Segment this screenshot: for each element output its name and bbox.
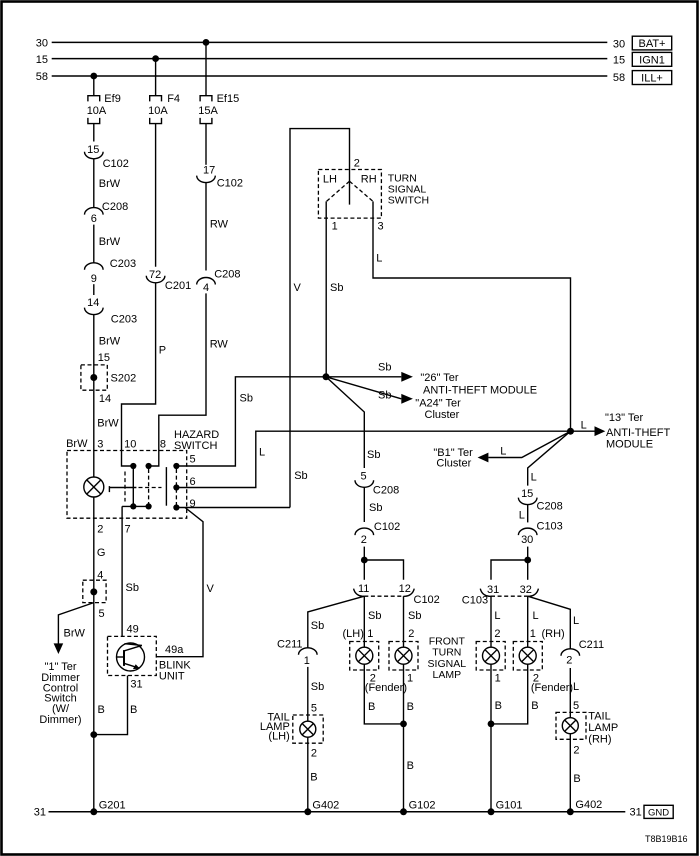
svg-text:B: B	[368, 701, 375, 713]
svg-text:Sb: Sb	[240, 393, 253, 405]
wire LH node to pin 11 drop	[363, 560, 365, 580]
front turn signal lamp LH (front)	[389, 642, 418, 671]
wire RH node to pin 31 drop	[491, 560, 528, 580]
svg-text:2: 2	[361, 534, 367, 546]
svg-text:Sb: Sb	[126, 582, 139, 594]
fuse Ef15 15A	[198, 42, 239, 123]
svg-text:V: V	[294, 282, 302, 294]
junction B-join left column	[90, 731, 97, 738]
svg-text:7: 7	[125, 523, 131, 535]
svg-text:L: L	[376, 252, 382, 264]
svg-text:31: 31	[630, 807, 642, 819]
junction A (Sb node)	[323, 373, 330, 380]
svg-text:RW: RW	[210, 218, 229, 230]
svg-text:(LH): (LH)	[268, 730, 289, 742]
svg-text:15: 15	[87, 144, 99, 156]
svg-text:L: L	[573, 681, 579, 693]
ground G201	[90, 799, 125, 815]
svg-text:B: B	[407, 701, 414, 713]
svg-text:5: 5	[360, 471, 366, 483]
blink unit transistor Q	[117, 643, 145, 671]
svg-text:1: 1	[530, 628, 536, 640]
connector C208 pin 4	[197, 268, 241, 294]
svg-text:MODULE: MODULE	[606, 438, 653, 450]
svg-text:SWITCH: SWITCH	[388, 195, 429, 207]
svg-text:1: 1	[367, 628, 373, 640]
svg-text:L: L	[494, 610, 500, 622]
svg-text:5: 5	[311, 703, 317, 715]
wire BrW C208 to C203	[94, 225, 121, 263]
ground G102	[400, 799, 436, 815]
wire L C103-31 to front turn signal lamp RH-2	[491, 596, 501, 647]
svg-text:30: 30	[36, 38, 48, 50]
svg-text:15A: 15A	[198, 105, 218, 117]
front turn signal lamp LH (fender)	[350, 642, 379, 671]
svg-text:IGN1: IGN1	[639, 54, 665, 66]
svg-text:Dimmer): Dimmer)	[39, 714, 81, 726]
arrow "26" Ter ANTI-THEFT MODULE	[326, 362, 537, 397]
dimmer splice box	[83, 580, 106, 620]
svg-text:Ef15: Ef15	[217, 93, 240, 105]
svg-text:S202: S202	[111, 373, 137, 385]
svg-text:(RH): (RH)	[588, 734, 611, 746]
svg-text:(Fender): (Fender)	[531, 682, 573, 694]
svg-text:31: 31	[130, 678, 142, 690]
svg-text:B: B	[495, 700, 502, 712]
svg-text:B: B	[573, 773, 580, 785]
label front turn signal lamp	[428, 636, 467, 681]
svg-text:RW: RW	[210, 339, 229, 351]
node RH distribution junction	[524, 557, 531, 564]
svg-text:BrW: BrW	[97, 418, 119, 430]
blink unit labels	[130, 644, 191, 690]
svg-text:9: 9	[91, 273, 97, 285]
junction on bus 15	[152, 55, 159, 62]
wire B tail lamp RH to G402	[570, 734, 580, 812]
svg-text:G101: G101	[496, 799, 523, 811]
arrow "A24" Ter Cluster	[326, 377, 461, 421]
connector C103 pin 31	[462, 584, 499, 607]
wire V turn signal pin 2 riser	[290, 129, 350, 508]
svg-text:ANTI-THEFT: ANTI-THEFT	[606, 427, 670, 439]
wire L C103-32 to front turn signal lamp RH-1	[528, 596, 565, 647]
svg-text:G201: G201	[99, 799, 126, 811]
svg-text:2: 2	[408, 628, 414, 640]
svg-text:49a: 49a	[165, 644, 184, 656]
svg-text:10A: 10A	[87, 105, 107, 117]
svg-text:L: L	[581, 419, 587, 431]
svg-text:49: 49	[127, 624, 139, 636]
connector C103 pin 30	[518, 521, 562, 547]
wire F4 to connector C201	[155, 124, 157, 267]
connector C201 pin 72	[146, 269, 191, 292]
svg-text:C201: C201	[165, 280, 191, 292]
wire B lamp LH-2(fender) to join	[364, 664, 407, 724]
junction on bus 58	[90, 73, 97, 80]
svg-text:30: 30	[613, 39, 625, 51]
svg-text:C103: C103	[537, 521, 563, 533]
wire Sb C102-11 to front turn signal lamp LH-1	[343, 596, 382, 647]
bus 58 ILL+	[36, 71, 672, 85]
bus 30 BAT+	[36, 36, 672, 50]
wire B lamp RH-1 to G101	[491, 664, 502, 812]
svg-text:Sb: Sb	[311, 681, 324, 693]
svg-text:Sb: Sb	[294, 470, 307, 482]
wire B lamp LH-1 to G102	[404, 664, 414, 812]
wire Ef15 to connector C102	[205, 124, 207, 165]
svg-text:GND: GND	[648, 807, 669, 818]
svg-text:Sb: Sb	[378, 389, 391, 401]
wire Sb C102-11 branch to C211 LH	[308, 596, 365, 648]
svg-text:1: 1	[304, 655, 310, 667]
wire BrW C203 to S202 to hazard switch pin 3	[94, 315, 121, 477]
connector C203 pin 9	[85, 258, 137, 285]
svg-text:5: 5	[190, 454, 196, 466]
ground G101	[488, 799, 523, 815]
turn signal switch contacts	[326, 181, 373, 201]
wire Sb hazard pin 5 to junction A	[176, 377, 326, 466]
svg-text:T8B19B16: T8B19B16	[645, 834, 688, 844]
wire L C211 to tail lamp RH	[570, 668, 579, 718]
wire Sb C211 to tail lamp LH	[308, 667, 324, 721]
connector C103 pin 32	[491, 584, 538, 596]
svg-text:ILL+: ILL+	[641, 73, 663, 85]
svg-text:Ef9: Ef9	[104, 93, 121, 105]
svg-text:C208: C208	[373, 484, 399, 496]
svg-text:12: 12	[399, 583, 411, 595]
front turn signal lamp RH (front)	[476, 642, 505, 671]
junction B-join RH	[488, 721, 495, 728]
hazard contact pole C (pins 5,6,9)	[173, 463, 179, 511]
hazard contact pole A (pins 10-7)	[125, 463, 136, 510]
svg-text:L: L	[531, 472, 537, 484]
connector C208 pin 5	[355, 471, 399, 497]
svg-text:1: 1	[332, 221, 338, 233]
svg-text:3: 3	[378, 221, 384, 233]
svg-text:1: 1	[407, 673, 413, 685]
svg-text:BrW: BrW	[99, 178, 121, 190]
svg-text:15: 15	[521, 488, 533, 500]
svg-text:G402: G402	[312, 799, 339, 811]
wire P C201 to hazard pin 10	[122, 283, 167, 466]
connector C208 pin 15	[518, 488, 562, 513]
svg-text:B: B	[531, 700, 538, 712]
svg-text:14: 14	[87, 297, 99, 309]
connector C208 pin 6	[85, 201, 129, 225]
arrow "B1" Ter Cluster	[433, 431, 570, 469]
svg-text:B: B	[407, 760, 414, 772]
wire B left column to G201	[94, 592, 105, 812]
svg-text:30: 30	[521, 534, 533, 546]
svg-text:C208: C208	[102, 201, 128, 213]
svg-text:15: 15	[36, 54, 48, 66]
wire hazard pin 9 to V riser	[176, 507, 290, 509]
svg-text:10A: 10A	[148, 105, 168, 117]
svg-text:G: G	[97, 547, 106, 559]
hazard switch box	[66, 429, 219, 518]
svg-text:C102: C102	[414, 594, 440, 606]
svg-text:TURN: TURN	[432, 647, 461, 659]
wire C203-9 to C203-14	[93, 284, 95, 295]
svg-text:10: 10	[124, 439, 136, 451]
svg-text:15: 15	[98, 352, 110, 364]
fuse F4 10A	[148, 59, 180, 124]
svg-text:Cluster: Cluster	[436, 458, 471, 470]
wire B tail lamp LH to G402	[308, 737, 318, 812]
wire BrW branch to dimmer control switch	[54, 603, 94, 654]
junction on bus 30	[203, 39, 210, 46]
wire L junction B to C208	[528, 431, 571, 485]
wire RW C208 to hazard pin 8	[149, 293, 229, 466]
svg-text:BrW: BrW	[66, 438, 88, 450]
svg-text:"13" Ter: "13" Ter	[605, 412, 644, 424]
wire RW C102 to C208	[206, 183, 229, 271]
wire Sb C102-12 to front turn signal lamp LH-2	[404, 596, 422, 647]
svg-text:11: 11	[358, 583, 369, 595]
connector C102 pin 15	[85, 144, 129, 170]
svg-text:G402: G402	[575, 799, 602, 811]
svg-text:3: 3	[97, 439, 103, 451]
hazard contact pole B (pin 8)	[146, 463, 152, 510]
blink unit box	[108, 636, 157, 675]
svg-text:C208: C208	[214, 268, 240, 280]
svg-text:Sb: Sb	[378, 362, 391, 374]
svg-text:BrW: BrW	[99, 236, 121, 248]
wire B lamp RH-2(fender) to join	[491, 664, 573, 724]
wire BrW C102 to C208	[94, 159, 121, 208]
svg-text:C102: C102	[217, 178, 243, 190]
connector C102 pin 11	[354, 583, 370, 596]
svg-text:72: 72	[149, 269, 161, 281]
connector C102 pin 12	[364, 583, 439, 606]
wire V branch to blink unit 49a	[156, 508, 214, 657]
wire L hazard pin 6 to junction B	[176, 431, 570, 487]
svg-text:(LH): (LH)	[343, 628, 364, 640]
ground bus 31	[34, 807, 642, 819]
wire LH node to pin 12 drop	[364, 560, 403, 580]
svg-text:31: 31	[487, 584, 499, 596]
wire Sb hazard pin 7 to blink unit 49	[122, 506, 139, 636]
wire B blink unit 31 to B-join	[94, 676, 138, 735]
svg-text:C208: C208	[537, 501, 563, 513]
svg-text:P: P	[159, 345, 166, 357]
svg-text:BrW: BrW	[99, 336, 121, 348]
svg-text:V: V	[207, 583, 215, 595]
wire L C103-32 branch to C211 RH	[528, 596, 579, 649]
wire Sb C102 to LH distribution node	[363, 547, 365, 560]
turn signal switch label	[388, 173, 429, 207]
svg-text:4: 4	[97, 569, 103, 581]
connector C102 pin 2	[355, 521, 400, 546]
wire G hazard pin 2 down to dimmer splice	[94, 497, 106, 592]
tail lamp RH	[556, 710, 618, 745]
svg-text:TAIL: TAIL	[588, 710, 610, 722]
svg-text:(RH): (RH)	[542, 628, 565, 640]
svg-text:G102: G102	[409, 799, 436, 811]
svg-text:Sb: Sb	[368, 610, 381, 622]
tail lamp LH	[260, 711, 323, 743]
wire L turn signal pin 3 to junction B	[373, 201, 571, 431]
connector C102 pin 17	[197, 164, 243, 189]
ground G402 (RH)	[567, 799, 603, 815]
svg-text:C211: C211	[579, 639, 604, 651]
svg-text:B: B	[310, 772, 317, 784]
svg-text:Sb: Sb	[311, 620, 324, 632]
svg-text:2: 2	[354, 158, 360, 170]
svg-text:(Fender): (Fender)	[365, 682, 407, 694]
wire RH node to pin 32 drop	[527, 560, 529, 580]
svg-text:F4: F4	[167, 93, 180, 105]
wire Sb turn signal pin 1 to junction	[326, 201, 343, 376]
bus 15 IGN1	[36, 52, 672, 66]
svg-text:BrW: BrW	[64, 628, 86, 640]
turn signal switch box	[318, 158, 381, 218]
svg-text:Sb: Sb	[369, 502, 382, 514]
svg-text:6: 6	[190, 476, 196, 488]
svg-text:14: 14	[99, 393, 111, 405]
svg-text:2: 2	[494, 628, 500, 640]
wire BrW fuse Ef9 to connector C102	[93, 124, 95, 142]
hazard lamp linkage	[109, 486, 161, 492]
junction B (L node)	[567, 428, 574, 435]
svg-text:L: L	[573, 615, 579, 627]
front turn signal lamp RH (fender)	[513, 642, 542, 671]
svg-text:58: 58	[613, 72, 625, 84]
svg-text:Sb: Sb	[367, 449, 380, 461]
svg-text:2: 2	[311, 748, 317, 760]
svg-text:"26" Ter: "26" Ter	[420, 372, 459, 384]
svg-text:RH: RH	[361, 174, 377, 186]
svg-text:9: 9	[190, 498, 196, 510]
svg-text:32: 32	[520, 584, 532, 596]
svg-text:15: 15	[613, 54, 625, 66]
svg-text:5: 5	[573, 700, 579, 712]
wire hazard pins 7 bottom bar	[122, 505, 149, 507]
arrow "13" Ter ANTI-THEFT MODULE	[571, 412, 671, 450]
svg-text:B: B	[98, 704, 105, 716]
svg-text:2: 2	[566, 654, 572, 666]
svg-text:L: L	[500, 446, 506, 458]
svg-text:31: 31	[34, 807, 46, 819]
svg-text:LH: LH	[323, 174, 337, 186]
connector C203 pin 14	[85, 297, 138, 325]
svg-text:5: 5	[99, 608, 105, 620]
svg-text:1: 1	[495, 673, 501, 685]
svg-text:ANTI-THEFT MODULE: ANTI-THEFT MODULE	[423, 384, 537, 396]
svg-text:17: 17	[203, 164, 215, 176]
svg-text:8: 8	[160, 439, 166, 451]
svg-text:C203: C203	[111, 313, 137, 325]
wire L C208 to C103	[519, 505, 528, 523]
svg-text:LAMP: LAMP	[433, 669, 462, 681]
splice S202	[81, 365, 136, 390]
svg-text:6: 6	[91, 213, 97, 225]
svg-text:UNIT: UNIT	[159, 671, 185, 683]
svg-text:58: 58	[36, 71, 48, 83]
fuse Ef9 10A	[87, 76, 121, 124]
svg-text:2: 2	[573, 745, 579, 757]
svg-text:Sb: Sb	[330, 282, 343, 294]
hazard actuator bar	[165, 467, 167, 506]
svg-text:C103: C103	[462, 595, 488, 607]
junction B-join LH	[400, 721, 407, 728]
svg-text:C203: C203	[110, 258, 136, 270]
svg-text:"A24" Ter: "A24" Ter	[415, 398, 461, 410]
connector C211 pin 1	[277, 639, 317, 667]
svg-text:L: L	[259, 447, 265, 459]
wire Sb junction A to C208	[326, 377, 380, 468]
hazard illumination lamp	[84, 477, 104, 497]
svg-text:C102: C102	[374, 521, 400, 533]
wire Sb C208 to C102	[364, 487, 382, 522]
svg-text:4: 4	[203, 282, 209, 294]
wire L C103 to RH distribution node	[527, 547, 529, 560]
svg-text:Cluster: Cluster	[425, 409, 460, 421]
svg-text:Sb: Sb	[408, 610, 421, 622]
svg-text:C102: C102	[103, 158, 129, 170]
svg-text:C211: C211	[277, 639, 302, 651]
ground GND box	[644, 805, 673, 818]
svg-text:L: L	[533, 610, 539, 622]
svg-text:BAT+: BAT+	[638, 38, 665, 50]
node LH distribution junction	[361, 557, 368, 564]
svg-text:L: L	[519, 510, 525, 522]
node "1" Ter Dimmer Control Switch label	[39, 661, 81, 726]
svg-text:B: B	[130, 704, 137, 716]
svg-text:2: 2	[97, 523, 103, 535]
svg-text:LAMP: LAMP	[588, 722, 618, 734]
connector C211 pin 2	[561, 639, 604, 666]
ground G402 (LH)	[304, 799, 339, 815]
